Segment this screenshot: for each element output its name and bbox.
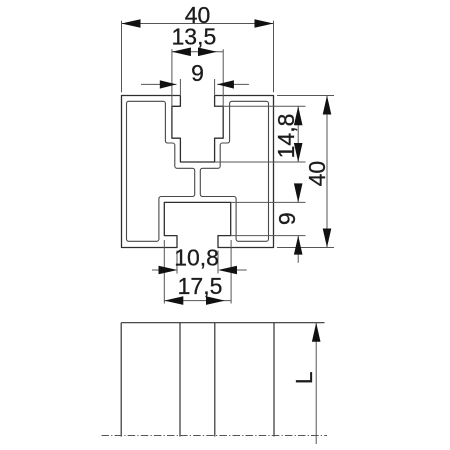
- side view inner edge left (slot lip): [179, 323, 181, 437]
- svg-text:40: 40: [304, 161, 330, 187]
- dim 13,5: dimension line: [172, 51, 223, 53]
- dim 10,8: right tail: [221, 269, 247, 271]
- dim 9 right: bottom arrowhead: [294, 236, 303, 255]
- dim 9 top: extension line left: [179, 79, 181, 96]
- dim 40 right: extension line bottom: [277, 247, 334, 249]
- right chamber cavity: [200, 101, 268, 241]
- dim 17,5: extension line left: [163, 240, 165, 304]
- dim 14,8: extension line bottom: [215, 161, 306, 163]
- dim 17,5: extension line right: [230, 240, 232, 304]
- centerline (dash-dot break line): [102, 435, 328, 437]
- dim 9 right: lower tail: [297, 236, 299, 263]
- dim 13,5: extension line left: [171, 49, 173, 106]
- dim 10,8: left arrowhead: [159, 266, 178, 275]
- dim 14,8: bottom arrowhead: [294, 143, 303, 162]
- side view top edge + extension for L: [121, 322, 324, 324]
- dim 9 top: left tail: [141, 83, 177, 85]
- svg-text:10,8: 10,8: [174, 245, 219, 271]
- side view left edge: [120, 323, 122, 437]
- dim 40 right: bottom arrowhead: [323, 229, 332, 248]
- dim 17,5: dimension line: [164, 300, 231, 302]
- dim 10,8: extension line right: [217, 251, 219, 274]
- dim 14,8: extension line top: [215, 105, 306, 107]
- svg-text:9: 9: [191, 60, 204, 86]
- side view inner edge right (slot lip): [214, 323, 216, 437]
- dim 40 right: dimension line: [326, 96, 328, 248]
- dim 9 right: extension line top: [231, 201, 306, 203]
- dim 10,8: right arrowhead: [218, 266, 237, 275]
- dim 17,5: right arrowhead: [206, 296, 225, 305]
- left chamber cavity: [127, 101, 195, 241]
- dim 40 top: dimension line: [122, 23, 274, 25]
- dim 14,8: dimension line: [297, 106, 299, 162]
- dim 9 right: extension line bottom: [231, 235, 306, 237]
- svg-text:L: L: [291, 371, 317, 384]
- dim 9 right: top arrowhead: [294, 183, 303, 202]
- dim 13,5: right arrowhead: [198, 48, 217, 57]
- dim 10,8: left tail: [152, 269, 174, 271]
- dim 40 top: right arrowhead: [255, 19, 274, 28]
- dim 40 top: extension line left: [121, 21, 123, 93]
- dim 9 top: left arrowhead: [160, 80, 177, 88]
- dim 40 top: left arrowhead: [122, 19, 141, 28]
- dim 9 top: extension line right: [214, 79, 216, 96]
- dim 9 top: right arrowhead: [217, 80, 234, 88]
- svg-text:13,5: 13,5: [172, 24, 217, 50]
- svg-text:17,5: 17,5: [178, 273, 223, 299]
- dim L: dimension line: [315, 323, 317, 444]
- dim 9 right: upper tail: [297, 187, 299, 203]
- outer contour of 40x40 profile with top T-slot and bottom T-slot: [122, 96, 274, 248]
- dim 40 right: extension line top: [277, 95, 334, 97]
- dim L: arrowhead up: [312, 323, 321, 342]
- svg-text:9: 9: [274, 212, 300, 225]
- dim 13,5: extension line right: [222, 49, 224, 106]
- dim 14,8: top arrowhead: [294, 106, 303, 125]
- dim 40 right: top arrowhead: [323, 96, 332, 115]
- svg-text:14,8: 14,8: [273, 114, 299, 159]
- dim 9 top: right tail: [217, 83, 249, 85]
- dim 40 top: extension line right: [273, 21, 275, 93]
- dim 10,8: extension line left: [176, 251, 178, 274]
- dim 13,5: left arrowhead: [172, 48, 191, 57]
- side view right edge: [273, 323, 275, 437]
- dim 17,5: left arrowhead: [164, 296, 183, 305]
